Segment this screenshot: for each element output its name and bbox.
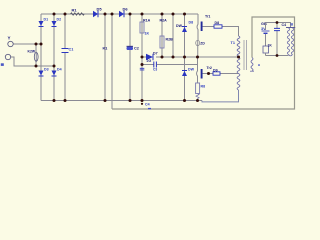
svg-text:D9: D9	[213, 69, 218, 73]
diode D2	[52, 18, 62, 27]
svg-text:D5: D5	[97, 7, 103, 12]
capacitor Tr2 electrolytic	[197, 57, 212, 83]
svg-text:Tr2: Tr2	[207, 66, 212, 70]
junction (142,14)	[141, 13, 144, 16]
svg-text:R1A: R1A	[143, 19, 151, 23]
capacitor C3 in line y64.5	[153, 62, 157, 72]
wire rail A x41	[40, 14, 42, 101]
junction (142,64.5)	[141, 63, 144, 66]
battery GB plates	[262, 31, 270, 46]
svg-text:D7: D7	[153, 52, 158, 56]
svg-text:D8: D8	[189, 21, 194, 25]
svg-text:C2: C2	[134, 47, 139, 51]
svg-text:D6: D6	[123, 7, 129, 12]
junction (41,44)	[40, 43, 43, 46]
svg-text:T1: T1	[231, 41, 235, 45]
diode D3	[39, 68, 49, 77]
capacitor C1 on rail x65	[62, 48, 74, 53]
junction (130,100.5)	[129, 99, 132, 102]
svg-text:1K: 1K	[268, 44, 273, 48]
wire AC top y44	[14, 43, 42, 45]
stray label mark left margin	[1, 63, 4, 66]
diode D8 box in y27.5 line	[214, 21, 222, 28]
terminal 2 circle	[5, 54, 10, 59]
wire rail H x162	[161, 14, 163, 57]
lamp ZD on rail x197.5	[196, 40, 206, 45]
diode D4	[52, 68, 62, 77]
svg-text:DW: DW	[188, 68, 195, 72]
svg-text:K1: K1	[103, 47, 108, 51]
resistor R8 on rail x197.5	[196, 83, 206, 101]
svg-text:2G: 2G	[147, 59, 152, 63]
capacitor C4 on rail x277	[274, 23, 286, 56]
diode D5 on top bus	[93, 7, 102, 18]
junction (142,100.5)	[141, 99, 144, 102]
svg-text:R2B: R2B	[166, 38, 174, 42]
capacitor C5 small on rail x142	[140, 68, 145, 70]
junction (105,100.5)	[104, 99, 107, 102]
wire mid line y57	[142, 56, 239, 58]
transformer T1 primary winding	[237, 36, 240, 56]
wire bottom bus y100.5	[41, 100, 202, 102]
svg-text:ZD: ZD	[200, 42, 205, 46]
svg-text:C4: C4	[145, 103, 150, 107]
capacitor C2 electrolytic on rail x130	[127, 46, 139, 50]
wire rail D x105	[104, 14, 106, 101]
wire rail F x130	[129, 14, 131, 101]
wire bottom y55.5 in box	[266, 55, 289, 57]
junction (277,22.5)	[276, 21, 279, 24]
zener diode lower on rail x184.5	[182, 68, 195, 77]
junction (142,57)	[141, 56, 144, 59]
resistor R1 zigzag on top bus	[71, 13, 85, 15]
junction (105,14)	[104, 13, 107, 16]
wire emitter return loop	[202, 90, 239, 102]
junction (173,14)	[172, 13, 175, 16]
svg-text:R1: R1	[72, 8, 78, 13]
capacitor Tr1 electrolytic	[197, 14, 210, 40]
diode D6 on top bus	[119, 7, 128, 18]
resistor R2 box on rail x142	[140, 19, 151, 36]
wire top bus	[41, 13, 198, 15]
svg-text:DW: DW	[176, 24, 183, 28]
junction (36,44)	[35, 43, 38, 46]
svg-text:B: B	[291, 23, 294, 27]
wire AC bottom to y66	[11, 57, 54, 66]
svg-text:D2: D2	[57, 18, 62, 22]
wire rail J x184.5	[184, 14, 186, 101]
svg-text:Y: Y	[8, 36, 11, 41]
svg-text:u: u	[258, 63, 260, 67]
junction (173,57)	[172, 56, 175, 59]
resistor R3 box on rail x162	[160, 19, 174, 49]
junction (36,66)	[35, 65, 38, 68]
svg-text:C4: C4	[282, 23, 287, 27]
wire rail G x142	[141, 14, 143, 101]
svg-text:R8: R8	[201, 85, 206, 89]
svg-text:K2W: K2W	[28, 50, 36, 54]
right box wire loop	[112, 17, 295, 109]
lamp K2	[28, 44, 39, 66]
transformer T1 feedback winding	[237, 57, 240, 90]
junction (112,14)	[111, 13, 114, 16]
junction (184.5,100.5)	[183, 99, 186, 102]
svg-text:C3: C3	[153, 67, 157, 71]
svg-text:1K: 1K	[145, 32, 150, 36]
junction (277,55.5)	[276, 54, 279, 57]
svg-text:D8: D8	[215, 21, 220, 25]
junction (162,57)	[161, 56, 164, 59]
wire line y73.5	[203, 73, 239, 75]
junction (130,14)	[129, 13, 132, 16]
wire rail I x173	[172, 14, 174, 57]
svg-text:C1: C1	[69, 48, 74, 52]
wire line y26.5 to transformer	[203, 27, 239, 37]
junction (184.5,57)	[183, 56, 186, 59]
diode D1	[39, 18, 49, 27]
junction (162,14)	[161, 13, 164, 16]
junction (142,103.8)	[141, 103, 143, 105]
junction (65,100.5)	[64, 99, 67, 102]
svg-text:Tr1: Tr1	[205, 15, 210, 19]
zener diode DW upper on rail x184.5	[176, 21, 193, 33]
junction (238.5,57)	[237, 56, 240, 59]
junction (54,100.5)	[53, 99, 56, 102]
wire rail x197.75 mid	[197, 40, 199, 57]
wire rail C x65	[64, 14, 66, 101]
junction (54,66)	[53, 65, 56, 68]
switch K3 box	[263, 44, 272, 56]
junction (54,14)	[53, 13, 56, 16]
transformer core	[244, 40, 247, 70]
junction (184.5,14)	[183, 13, 186, 16]
junction (65,14)	[64, 13, 67, 16]
wire rail E x112 with bottom jog	[111, 14, 113, 109]
junction (208.5,73.5)	[207, 72, 210, 75]
svg-text:R2A: R2A	[160, 19, 168, 23]
earphone B	[286, 23, 295, 56]
svg-text:D4: D4	[57, 68, 62, 72]
terminal Y input circle	[8, 41, 13, 46]
wire base line y64.5	[142, 64, 198, 66]
junction (197.5,57)	[196, 56, 199, 59]
svg-text:D1: D1	[44, 18, 49, 22]
wire battery top y22.5	[266, 23, 291, 31]
diode D7	[146, 52, 158, 64]
svg-text:D3: D3	[44, 68, 49, 72]
diode D9 box in y74 line	[213, 69, 220, 76]
junction (197.5,100.5)	[196, 99, 199, 102]
transformer secondary winding	[251, 58, 253, 72]
wire rail B x54	[53, 14, 55, 101]
